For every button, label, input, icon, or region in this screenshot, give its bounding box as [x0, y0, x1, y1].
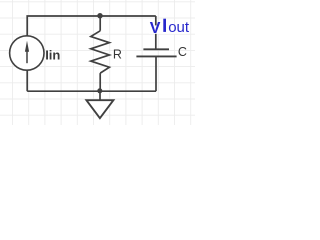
svg-text:V: V [150, 20, 161, 37]
label Vout probe (blue) [149, 19, 190, 37]
svg-text:R: R [113, 47, 122, 61]
resistor R [91, 16, 110, 91]
wire capacitor bottom drop [155, 57, 157, 91]
wire capacitor top drop [155, 16, 157, 49]
wire current source bottom drop [26, 70, 28, 91]
node junction top [97, 13, 102, 18]
wire top rail from current source to capacitor [27, 16, 156, 36]
svg-text:Iin: Iin [45, 48, 60, 63]
capacitor C [136, 49, 176, 56]
node junction bottom / ground [97, 88, 102, 93]
svg-text:C: C [178, 45, 187, 59]
svg-text:out: out [168, 19, 190, 36]
wire bottom rail [27, 90, 156, 92]
current source Iin [10, 36, 44, 70]
ground [86, 91, 113, 118]
